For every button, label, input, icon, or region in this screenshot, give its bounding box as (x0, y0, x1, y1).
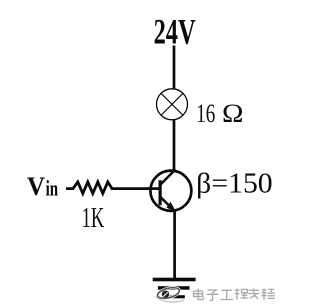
svg-text:β=150: β=150 (196, 168, 273, 200)
svg-text:Ω: Ω (222, 99, 244, 128)
svg-text:16: 16 (196, 99, 215, 128)
svg-text:in: in (46, 175, 59, 200)
svg-text:1K: 1K (82, 203, 105, 234)
svg-text:V: V (27, 172, 45, 201)
